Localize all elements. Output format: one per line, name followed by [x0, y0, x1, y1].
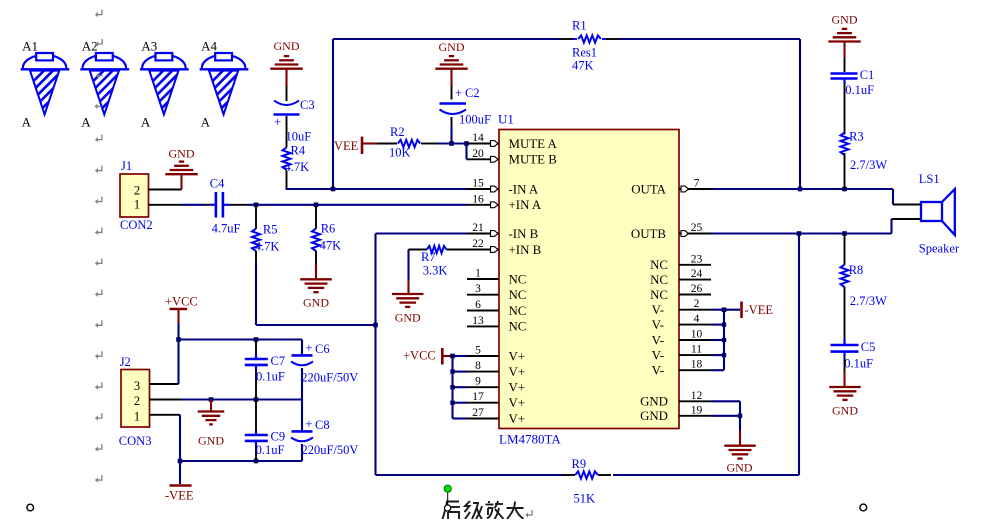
- capacitor C9 0.1uF: [245, 400, 285, 462]
- svg-text:NC: NC: [509, 272, 527, 286]
- svg-text:0.1uF: 0.1uF: [256, 369, 285, 383]
- svg-text:V-: V-: [652, 364, 664, 378]
- U1 pin 13 (NC): [467, 315, 526, 334]
- capacitor C7 0.1uF: [245, 340, 285, 400]
- svg-text:GND: GND: [198, 433, 224, 447]
- junction: +VCC rail branch: [176, 337, 181, 342]
- U1 pin 3 (NC): [467, 283, 526, 302]
- junction: C7 top: [254, 337, 259, 342]
- svg-text:47K: 47K: [572, 58, 594, 72]
- junction: V- pin4: [722, 322, 726, 326]
- U1 pin 7 (OUTA): [631, 178, 711, 197]
- wire: -VEE rail J2: [180, 415, 302, 484]
- svg-text:8: 8: [475, 360, 481, 372]
- junction: V+ pin8: [450, 369, 454, 373]
- junction: R6 / +IN A: [314, 203, 319, 208]
- resistor R8 2.7/3W: [841, 234, 888, 344]
- svg-text:A4: A4: [201, 39, 217, 54]
- ground GND (C3 top): [270, 39, 302, 101]
- svg-text:V+: V+: [509, 396, 526, 410]
- ground GND (C5): [829, 371, 861, 418]
- svg-text:18: 18: [691, 359, 703, 371]
- capacitor C8 220uF/50V: [291, 400, 358, 462]
- svg-text:C6: C6: [315, 342, 330, 356]
- svg-text:19: 19: [691, 404, 703, 416]
- resistor R9 51K: [572, 457, 598, 506]
- svg-text:+: +: [305, 340, 312, 355]
- wire: +VCC rail J2: [179, 323, 303, 384]
- resistor R6 47K: [312, 205, 341, 265]
- svg-text:14: 14: [472, 132, 484, 144]
- anchor circle bottom-right: [860, 504, 867, 511]
- U1 pin 15 (-IN A): [467, 178, 539, 197]
- svg-text:4.7K: 4.7K: [285, 160, 310, 174]
- svg-text:-VEE: -VEE: [165, 489, 194, 503]
- svg-text:R2: R2: [390, 125, 405, 139]
- junction: MUTE A / MUTE B branch: [464, 141, 469, 146]
- svg-text:47K: 47K: [320, 238, 342, 252]
- resistor R2 10K: [377, 125, 437, 159]
- wire: OUTB net: [711, 219, 921, 234]
- resistor R7 3.3K: [409, 246, 468, 277]
- svg-text:10K: 10K: [389, 145, 411, 159]
- U1 pin 21 (-IN B): [467, 222, 538, 241]
- junction: R1/OUTA: [798, 187, 803, 192]
- svg-text:C3: C3: [300, 98, 315, 112]
- U1 pin 26 (NC): [650, 283, 711, 302]
- svg-text:GND: GND: [727, 460, 753, 474]
- ground GND (J1 pin 2): [165, 146, 197, 189]
- svg-text:C8: C8: [315, 418, 330, 432]
- svg-text:VEE: VEE: [334, 139, 359, 153]
- svg-text:220uF/50V: 220uF/50V: [301, 370, 358, 384]
- U1 pin 20 (MUTE B): [467, 148, 557, 167]
- svg-text:OUTA: OUTA: [631, 182, 666, 196]
- svg-text:U1: U1: [498, 112, 514, 127]
- svg-text:C2: C2: [465, 86, 480, 100]
- svg-text:GND: GND: [832, 13, 858, 27]
- svg-text:A2: A2: [82, 39, 98, 54]
- svg-text:V-: V-: [652, 318, 664, 332]
- svg-text:J2: J2: [120, 355, 131, 369]
- svg-text:3: 3: [134, 379, 140, 393]
- svg-text:7: 7: [694, 178, 700, 190]
- svg-text:V+: V+: [509, 381, 526, 395]
- U1 pin 8 (V+): [467, 360, 525, 379]
- svg-text:A: A: [22, 115, 32, 130]
- svg-text:23: 23: [691, 253, 703, 265]
- svg-text:0.1uF: 0.1uF: [845, 83, 874, 97]
- ground GND (R6): [300, 265, 332, 310]
- svg-text:R6: R6: [321, 222, 336, 236]
- junction: GND 12/19: [738, 414, 742, 418]
- svg-text:3: 3: [475, 283, 481, 295]
- svg-text:GND: GND: [832, 404, 858, 418]
- wire: -IN B net: [376, 234, 468, 476]
- svg-text:9: 9: [475, 376, 481, 388]
- U1 pin 6 (NC): [467, 299, 526, 318]
- ground GND (C2 top): [435, 40, 467, 100]
- resistor R1 47K: [572, 19, 606, 73]
- power +VCC (J2): [165, 294, 198, 323]
- svg-text:GND: GND: [303, 295, 329, 309]
- junction: R9/OUTB: [797, 231, 802, 236]
- svg-text:C9: C9: [271, 430, 286, 444]
- svg-text:4.7K: 4.7K: [255, 240, 280, 254]
- svg-text:C5: C5: [861, 340, 876, 354]
- svg-text:R1: R1: [572, 19, 587, 33]
- svg-text:220uF/50V: 220uF/50V: [302, 443, 359, 457]
- wire: U1 GND pins to ground: [711, 401, 740, 431]
- op-amp IC U1 LM4780TA body: [498, 112, 679, 447]
- junction: C2/R2/MUTE A: [449, 141, 454, 146]
- svg-text:A: A: [81, 115, 91, 130]
- ground GND (R7): [392, 250, 424, 325]
- junction: GND stub: [209, 397, 214, 402]
- anchor circle bottom-left: [27, 504, 34, 511]
- junction: C9 bottom: [254, 459, 259, 464]
- junction: R5 wire / -IN B vertical: [373, 323, 378, 328]
- svg-text:+VCC: +VCC: [165, 294, 198, 308]
- svg-text:1: 1: [134, 410, 140, 424]
- svg-text:0.1uF: 0.1uF: [256, 443, 285, 457]
- wire: J1 pin1 to C4: [181, 204, 205, 206]
- power VEE (left): [334, 137, 377, 154]
- svg-text:GND: GND: [395, 311, 421, 325]
- svg-text:V-: V-: [652, 303, 664, 317]
- svg-text:GND: GND: [439, 40, 465, 54]
- svg-text:NC: NC: [509, 320, 527, 334]
- junction: V+ pin9: [450, 385, 454, 389]
- wire: V+ bus: [453, 356, 468, 419]
- ground GND (J2 pin 2): [198, 400, 225, 448]
- U1 pin 22 (+IN B): [467, 238, 541, 257]
- svg-text:GND: GND: [640, 395, 668, 409]
- svg-text:R4: R4: [291, 144, 306, 158]
- power +VCC (U1): [403, 348, 453, 365]
- svg-text:C4: C4: [210, 177, 225, 191]
- svg-text:GND: GND: [274, 39, 300, 53]
- svg-text:16: 16: [472, 193, 484, 205]
- svg-text:V+: V+: [509, 349, 526, 363]
- svg-text:+: +: [274, 114, 281, 129]
- svg-text:V+: V+: [509, 365, 526, 379]
- U1 pin 9 (V+): [467, 376, 525, 395]
- svg-text:11: 11: [691, 344, 702, 356]
- screw A3: [138, 39, 206, 131]
- U1 pin 25 (OUTB): [631, 222, 711, 241]
- svg-text:V-: V-: [652, 348, 664, 362]
- junction: V+ pin5: [450, 354, 455, 359]
- svg-text:R8: R8: [849, 263, 864, 277]
- svg-text:4.7uF: 4.7uF: [212, 221, 241, 235]
- U1 pin 11 (V-): [652, 344, 711, 363]
- junction: V+ pin17: [450, 401, 454, 405]
- svg-text:4: 4: [694, 313, 700, 325]
- svg-text:GND: GND: [169, 146, 195, 160]
- U1 pin 19 (GND): [640, 404, 711, 423]
- paragraph formatting marks: [95, 10, 532, 518]
- svg-text:10: 10: [691, 329, 703, 341]
- svg-text:A1: A1: [22, 39, 38, 54]
- capacitor C1 0.1uF: [831, 68, 875, 135]
- screw A2: [78, 39, 146, 131]
- U1 pin 5 (V+): [467, 345, 525, 364]
- power -VEE (J2): [165, 486, 194, 503]
- svg-text:A: A: [201, 115, 211, 130]
- wire: MUTE net: [437, 144, 468, 160]
- svg-text:3.3K: 3.3K: [423, 263, 448, 277]
- capacitor C4 4.7uF: [205, 177, 248, 236]
- svg-text:A: A: [141, 115, 151, 130]
- svg-text:1: 1: [134, 198, 140, 212]
- svg-text:Speaker: Speaker: [919, 242, 960, 256]
- svg-text:NC: NC: [509, 304, 527, 318]
- svg-text:-VEE: -VEE: [745, 303, 774, 317]
- svg-text:C7: C7: [271, 354, 286, 368]
- svg-text:NC: NC: [509, 288, 527, 302]
- svg-text:+: +: [305, 416, 312, 431]
- svg-text:Res1: Res1: [572, 45, 597, 59]
- svg-text:2.7/3W: 2.7/3W: [850, 158, 887, 172]
- caption text 后级放大: [443, 501, 524, 519]
- svg-text:V-: V-: [652, 333, 664, 347]
- svg-text:J1: J1: [121, 159, 132, 173]
- U1 pin 14 (MUTE A): [467, 132, 558, 151]
- svg-text:+IN A: +IN A: [509, 198, 542, 212]
- svg-text:12: 12: [691, 390, 703, 402]
- svg-text:25: 25: [691, 222, 703, 234]
- svg-text:15: 15: [472, 178, 484, 190]
- svg-text:R5: R5: [263, 223, 278, 237]
- U1 pin 24 (NC): [650, 268, 711, 287]
- screw A4: [198, 39, 266, 131]
- svg-text:OUTB: OUTB: [631, 227, 666, 241]
- capacitor C6 220uF/50V: [291, 340, 358, 400]
- capacitor C3 10uF: [274, 98, 315, 148]
- svg-text:17: 17: [472, 391, 484, 403]
- svg-text:A3: A3: [141, 39, 157, 54]
- svg-text:100uF: 100uF: [459, 113, 491, 127]
- svg-text:MUTE B: MUTE B: [509, 153, 557, 167]
- wire: J2 mid (GND) rail: [181, 398, 302, 400]
- resistor R4 4.7K: [283, 144, 310, 190]
- svg-text:2: 2: [134, 394, 140, 408]
- screw A1: [19, 39, 87, 131]
- power -VEE (U1): [742, 302, 774, 319]
- U1 pin 4 (V-): [652, 313, 711, 332]
- wire: +IN A net: [248, 204, 467, 206]
- svg-text:CON3: CON3: [119, 434, 152, 448]
- svg-text:20: 20: [472, 148, 484, 160]
- svg-text:0.1uF: 0.1uF: [844, 356, 873, 370]
- capacitor C2 100uF: [440, 85, 492, 144]
- capacitor C5 0.1uF: [831, 339, 876, 371]
- svg-text:C1: C1: [860, 68, 875, 82]
- svg-text:51K: 51K: [574, 492, 596, 506]
- svg-text:24: 24: [691, 268, 703, 280]
- junction: R3/OUTA: [842, 187, 847, 192]
- connector J2 CON3: [119, 355, 181, 448]
- junction: -VEE rail branch: [178, 459, 183, 464]
- svg-text:10uF: 10uF: [286, 130, 312, 144]
- svg-text:22: 22: [472, 238, 484, 250]
- svg-text:R7: R7: [421, 250, 436, 264]
- ground GND (C1 top): [828, 13, 860, 73]
- U1 pin 2 (V-): [652, 298, 711, 317]
- svg-text:R9: R9: [572, 457, 587, 471]
- svg-text:26: 26: [691, 283, 703, 295]
- svg-text:5: 5: [475, 345, 481, 357]
- junction: R8/OUTB: [842, 231, 847, 236]
- svg-text:1: 1: [475, 268, 481, 280]
- connector J1 CON2: [120, 159, 182, 232]
- wire: R5 bottom to -IN B feedback: [256, 262, 376, 325]
- wire: OUTA net: [711, 189, 921, 205]
- svg-text:+IN B: +IN B: [509, 243, 542, 257]
- U1 pin 18 (V-): [652, 359, 711, 378]
- svg-text:CON2: CON2: [120, 218, 153, 232]
- wire: -IN A net: [286, 188, 468, 189]
- svg-text:27: 27: [472, 407, 484, 419]
- junction: V- pin11: [722, 353, 726, 357]
- U1 pin 16 (+IN A): [467, 193, 542, 212]
- junction: V- pin10: [722, 338, 726, 342]
- ground GND (U1 pins 12/19): [724, 431, 756, 474]
- svg-text:R3: R3: [849, 129, 864, 143]
- wire: feedback loop A top (R1 net): [333, 39, 800, 189]
- svg-text:MUTE A: MUTE A: [509, 137, 558, 151]
- speaker LS1: [919, 172, 960, 255]
- text handle green dot: [444, 485, 451, 511]
- svg-text:GND: GND: [640, 409, 668, 423]
- wire: V- bus: [711, 310, 740, 371]
- svg-text:-IN B: -IN B: [509, 227, 539, 241]
- U1 pin 10 (V-): [652, 329, 711, 348]
- junction: R1 feedback / -IN A: [331, 187, 336, 192]
- svg-text:2.7/3W: 2.7/3W: [850, 294, 887, 308]
- svg-text:NC: NC: [650, 258, 668, 272]
- resistor R5 4.7K: [252, 205, 279, 262]
- svg-text:13: 13: [472, 315, 484, 327]
- svg-text:6: 6: [475, 299, 481, 311]
- svg-text:LM4780TA: LM4780TA: [499, 432, 561, 447]
- junction: R5 / +IN A: [254, 203, 259, 208]
- wire: feedback loop B bottom (R9 net): [376, 234, 800, 476]
- U1 pin 27 (V+): [467, 407, 525, 426]
- svg-text:+: +: [455, 85, 462, 100]
- junction: C7/C9 mid: [254, 397, 259, 402]
- svg-text:2: 2: [694, 298, 700, 310]
- svg-text:+VCC: +VCC: [403, 348, 436, 362]
- resistor R3 2.7/3W: [841, 129, 888, 189]
- U1 pin 12 (GND): [640, 390, 711, 409]
- svg-text:NC: NC: [650, 288, 668, 302]
- svg-text:V+: V+: [509, 412, 526, 426]
- svg-text:2: 2: [134, 184, 140, 198]
- U1 pin 17 (V+): [467, 391, 525, 410]
- svg-text:LS1: LS1: [919, 172, 940, 186]
- svg-text:NC: NC: [650, 273, 668, 287]
- junction: V- pin2: [722, 307, 727, 312]
- svg-text:-IN A: -IN A: [509, 182, 539, 196]
- U1 pin 23 (NC): [650, 253, 711, 272]
- U1 pin 1 (NC): [467, 268, 526, 287]
- svg-text:21: 21: [472, 222, 484, 234]
